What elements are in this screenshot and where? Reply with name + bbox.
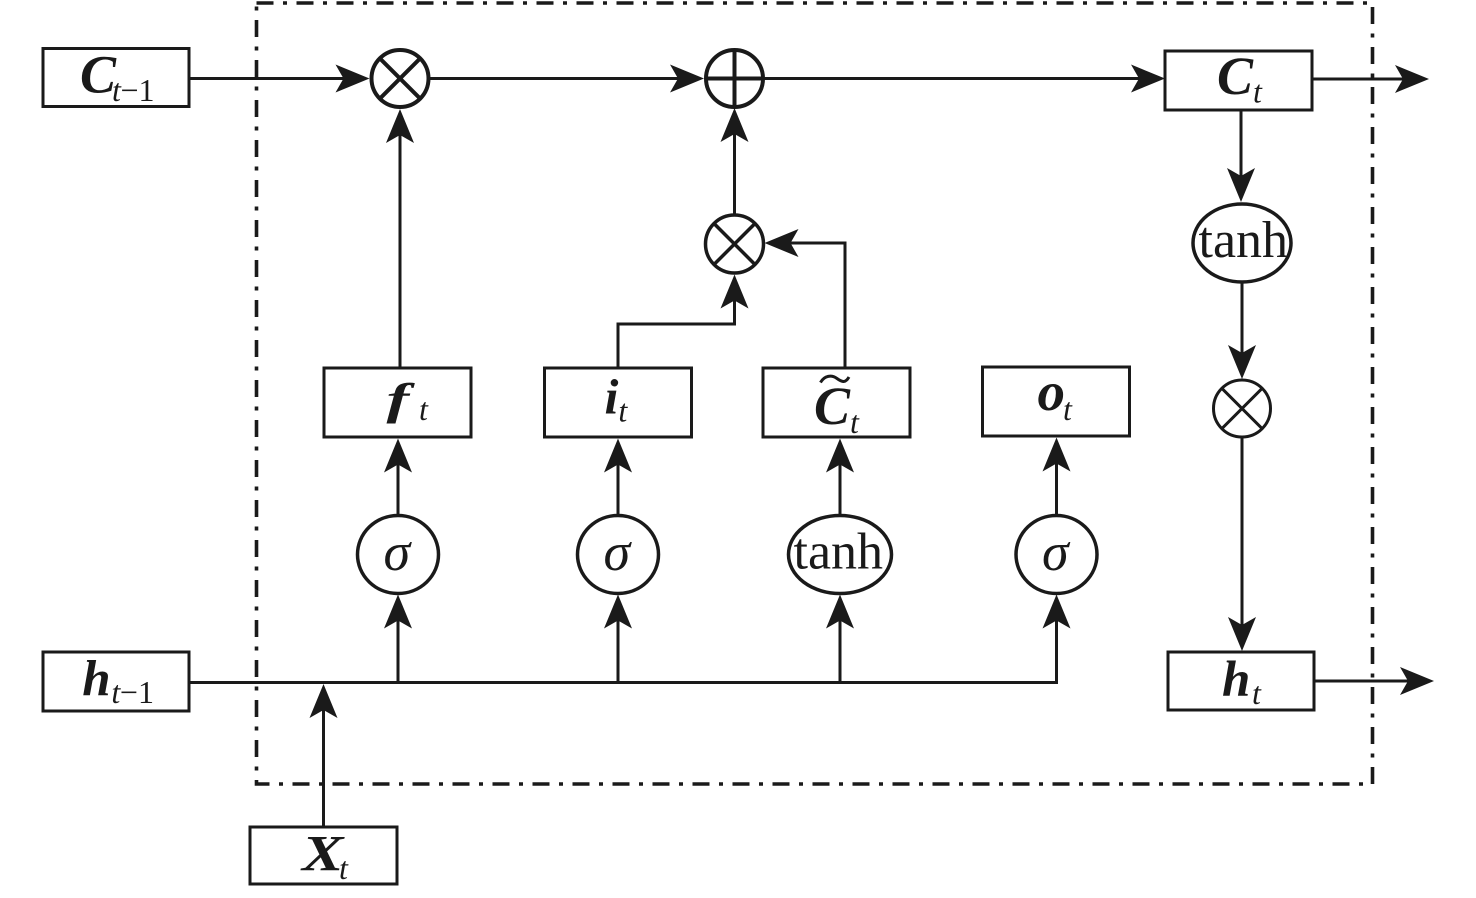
- svg-text:tanh: tanh: [1199, 212, 1289, 269]
- multiply node (output gate product): [1214, 380, 1271, 437]
- svg-text:h: h: [1222, 652, 1250, 708]
- wire add node to C_t box: [763, 77, 1143, 80]
- label o_t: [1038, 361, 1074, 427]
- wire C_t output arrow: [1312, 78, 1407, 81]
- box i_t: [545, 368, 692, 437]
- sigma circle (input gate): [578, 516, 659, 594]
- label f_t: [387, 376, 430, 427]
- svg-text:t: t: [850, 404, 860, 440]
- svg-text:−1: −1: [121, 72, 155, 108]
- wire riser to sigma (input): [617, 604, 620, 683]
- tanh ellipse (candidate): [789, 516, 892, 594]
- svg-text:t: t: [419, 391, 429, 427]
- box C~_t: [763, 368, 910, 437]
- box h_t: [1168, 652, 1314, 710]
- wire input product up to add node: [733, 117, 736, 214]
- box f_t: [324, 368, 471, 437]
- svg-text:t: t: [1063, 391, 1073, 427]
- wire h_t output arrow: [1314, 680, 1412, 683]
- svg-text:−1: −1: [120, 674, 154, 710]
- wire tanh to C~_t: [839, 448, 842, 515]
- svg-text:t: t: [339, 850, 349, 886]
- box X_t: [250, 827, 397, 884]
- add node: [706, 50, 763, 107]
- wire sigma to i_t: [617, 448, 620, 515]
- label C_t: [1217, 46, 1263, 110]
- LSTM cell dash-dot border: [257, 3, 1373, 784]
- svg-text:o: o: [1038, 361, 1066, 422]
- wire C_{t-1} to multiply node: [189, 77, 348, 80]
- multiply node (input gate product): [706, 215, 764, 273]
- label i_t: [605, 369, 629, 429]
- label C~_t: [814, 376, 860, 440]
- svg-text:σ: σ: [604, 522, 633, 582]
- wire h_{t-1} horizontal bus: [189, 604, 1057, 683]
- wire multiply node to add node: [429, 77, 683, 80]
- wire tanh down to output product: [1241, 282, 1244, 368]
- wire sigma to f_t: [397, 448, 400, 515]
- wire riser to tanh (candidate): [839, 604, 842, 683]
- box o_t: [983, 367, 1130, 436]
- label X_t: [300, 827, 349, 886]
- wire i_t to input product: [618, 284, 735, 368]
- label h_t: [1222, 652, 1262, 711]
- label h_{t-1}: [82, 652, 154, 711]
- wire C_t down to tanh: [1240, 110, 1243, 191]
- sigma circle (forget gate): [358, 516, 439, 594]
- svg-text:t: t: [618, 393, 628, 429]
- box h_{t-1}: [43, 652, 189, 711]
- wire X_t up to bus: [322, 695, 325, 827]
- svg-text:C: C: [1217, 46, 1254, 106]
- tanh ellipse (cell output activation): [1193, 204, 1291, 282]
- wire sigma to o_t: [1055, 447, 1058, 515]
- multiply node (forget gate product): [372, 50, 429, 107]
- svg-text:i: i: [605, 369, 619, 425]
- svg-text:σ: σ: [1042, 522, 1071, 582]
- label C_{t-1}: [80, 45, 155, 109]
- svg-text:tanh: tanh: [794, 524, 884, 581]
- svg-text:t: t: [1253, 74, 1263, 110]
- box C_t: [1165, 51, 1312, 110]
- svg-text:t: t: [1252, 675, 1262, 711]
- wire forget gate f_t up to multiply node: [399, 118, 402, 368]
- wire riser to sigma (forget): [397, 604, 400, 683]
- svg-text:C: C: [814, 376, 851, 436]
- box C_{t-1}: [43, 49, 189, 107]
- wire C~_t to input product: [774, 243, 845, 368]
- svg-text:σ: σ: [384, 522, 413, 582]
- svg-text:h: h: [82, 652, 110, 708]
- wire output product down to h_t: [1241, 437, 1244, 640]
- sigma circle (output gate): [1016, 516, 1097, 594]
